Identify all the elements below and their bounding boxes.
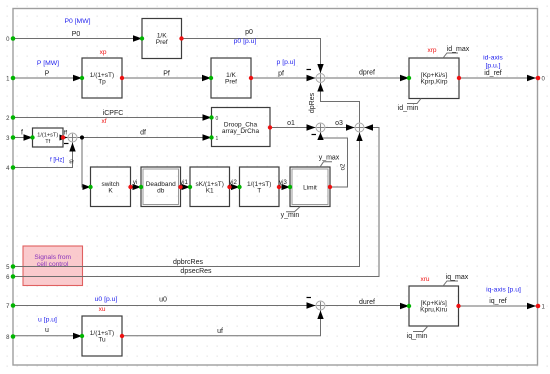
svg-text:yi3: yi3 (279, 180, 287, 186)
svg-text:xrp: xrp (427, 47, 436, 54)
label P0 (72, 31, 81, 38)
output port 1 iq_ref (536, 304, 546, 311)
port 7 u0 (6, 303, 15, 310)
label p [p.u] (277, 59, 296, 66)
svg-text:yi2: yi2 (229, 180, 237, 186)
wire P (port1 to Tp) (13, 75, 82, 81)
label P [MW] (37, 60, 59, 67)
wire o2 (Limit up into J3 bottom) (317, 133, 347, 188)
label iq_ref (489, 298, 507, 305)
label u [p.u.] (38, 316, 57, 323)
block Droop_Cha array_DrCha (209, 108, 272, 147)
wire dpRes (J4 up into J1 bottom) (317, 83, 359, 123)
svg-text:pf: pf (278, 71, 284, 78)
label dpsecRes (180, 268, 212, 275)
label id_min tick (398, 99, 421, 113)
svg-text:iq-axis [p.u]: iq-axis [p.u] (486, 287, 521, 294)
wire p0 (Pref1 to J1 top) (182, 39, 324, 74)
label iq_max tick (443, 274, 469, 286)
label P (45, 71, 50, 78)
svg-text:uf: uf (217, 328, 223, 335)
summing junction J3 (o3) (312, 123, 326, 135)
port 6 dpsecRes (6, 274, 15, 281)
label f0 rotated (70, 159, 76, 163)
wire pf (Pref2 to J1) (251, 75, 316, 81)
port 4 f0 (6, 165, 15, 172)
svg-text:T: T (257, 187, 261, 194)
summing junction J2 (df) (64, 133, 77, 144)
svg-text:P0: P0 (72, 31, 81, 38)
annotation Signals from cell control (23, 246, 83, 286)
wire o3 (J3 to J4) (326, 124, 355, 130)
wire yi (switch to Deadband) (131, 184, 142, 190)
block switch K (88, 167, 132, 207)
wire dpbrcRes (port5 up into J4 bottom) (13, 133, 363, 267)
label pf (278, 71, 284, 78)
block K1 sK/(1+sT) (188, 167, 232, 207)
label df (140, 130, 146, 137)
label xru (420, 276, 429, 283)
svg-text:array_DrCha: array_DrCha (222, 128, 260, 135)
block xrp [Kp+Ki/s] Kprp,Kirp (407, 58, 461, 99)
svg-text:1/(1+sT): 1/(1+sT) (37, 133, 58, 139)
label y_max wire labels yi (133, 180, 137, 186)
wire iCPFC (port2 to Droop pin0) (13, 114, 212, 120)
label iCPFC (103, 110, 124, 117)
svg-text:yi1: yi1 (180, 180, 188, 186)
port 3 f (6, 135, 15, 142)
block Pref2 1/K (209, 58, 253, 98)
label xp (100, 49, 107, 56)
svg-text:ff: ff (64, 131, 68, 137)
label Pf (163, 70, 170, 77)
svg-text:dpbrcRes: dpbrcRes (173, 259, 203, 266)
svg-text:[p.u.]: [p.u.] (485, 63, 500, 70)
label y_max tick (319, 155, 340, 168)
summing junction J1 (dpref) (307, 70, 326, 83)
svg-text:u: u (45, 327, 49, 334)
label P0 [MW] (64, 18, 90, 25)
svg-text:Pref: Pref (156, 39, 168, 46)
svg-text:dpref: dpref (359, 70, 375, 77)
label iq_min tick (407, 326, 428, 340)
svg-text:id_min: id_min (398, 105, 419, 112)
summing junction J5 (duref) (307, 298, 326, 311)
svg-text:db: db (157, 187, 165, 194)
wire uf (Tu up into J5 bottom) (122, 311, 324, 336)
svg-text:o3: o3 (335, 120, 343, 127)
svg-text:P [MW]: P [MW] (37, 60, 59, 67)
wire df branch down to switch (82, 138, 91, 191)
svg-text:Tf: Tf (45, 139, 50, 145)
node df junction dot (80, 135, 84, 139)
label o2 rotated (341, 163, 347, 170)
svg-text:xru: xru (420, 276, 429, 283)
svg-text:u0 [p.u]: u0 [p.u] (95, 296, 118, 303)
svg-text:0: 0 (216, 116, 219, 122)
label iq-axis [p.u] (486, 287, 521, 294)
block Tu 1/(1+sT) (80, 316, 124, 356)
label id_ref (484, 70, 502, 77)
svg-text:dpRes: dpRes (309, 92, 316, 113)
wire dpref (J1 to xrp) (326, 75, 410, 81)
wire f (port3 to Tf) (13, 134, 33, 140)
svg-text:o2: o2 (341, 163, 347, 170)
label id-axis (483, 55, 503, 62)
svg-text:id_max: id_max (447, 46, 470, 53)
label u0 [p.u] (95, 296, 118, 303)
port 8 u (6, 334, 15, 341)
svg-text:Pf: Pf (163, 70, 170, 77)
block Pref1 1/K (140, 19, 184, 59)
label duref (359, 299, 375, 306)
svg-text:K1: K1 (206, 187, 214, 194)
label id_max tick (443, 46, 470, 58)
label p0 (245, 29, 253, 36)
summing junction J4 (dpRes) (355, 123, 364, 132)
wire iq_ref (xru to output port 1) (459, 303, 537, 309)
wire Pf (Tp to Pref2) (122, 75, 211, 81)
label yi1 (180, 180, 188, 186)
wire yi1 (Deadband to K1) (181, 184, 191, 190)
wire df (J2 to Droop pin1) (78, 134, 212, 140)
svg-text:df: df (140, 130, 146, 137)
svg-text:Signals from: Signals from (34, 254, 71, 261)
svg-text:f0: f0 (70, 159, 76, 163)
wire yi2 (K1 to T) (230, 184, 240, 190)
svg-text:K: K (108, 187, 113, 194)
wire P0 (port0 to Pref1) (13, 35, 142, 41)
svg-text:Kpru,Kiru: Kpru,Kiru (420, 307, 447, 314)
svg-text:xf: xf (101, 118, 106, 125)
svg-text:1: 1 (216, 136, 219, 142)
label ff (64, 131, 68, 137)
label [p.u.] id (485, 63, 500, 70)
svg-text:u0: u0 (159, 297, 167, 304)
port 2 iCPFC (6, 115, 15, 122)
wire yi3 (T to Limit) (279, 184, 290, 190)
label dpRes rotated (309, 92, 316, 113)
label xrp (427, 47, 436, 54)
port 1 P (6, 76, 15, 83)
svg-text:dpsecRes: dpsecRes (180, 268, 212, 275)
svg-text:duref: duref (359, 299, 375, 306)
label uf (217, 328, 223, 335)
svg-text:p0: p0 (245, 29, 253, 36)
wire duref (J5 to xru) (326, 303, 410, 309)
svg-text:Limit: Limit (303, 185, 317, 192)
svg-text:p0 [p.u]: p0 [p.u] (234, 38, 257, 45)
svg-text:o1: o1 (287, 120, 295, 127)
label f [Hz] (50, 158, 64, 164)
block Tf 1/(1+sT) (30, 128, 65, 147)
label u (45, 327, 49, 334)
wire u0 (port7 to J5) (13, 302, 316, 308)
svg-text:iq_ref: iq_ref (489, 298, 507, 305)
svg-text:Pref: Pref (225, 79, 237, 86)
wire dpsecRes (port6 into J4 right) (13, 124, 379, 276)
svg-text:Tp: Tp (98, 79, 106, 86)
svg-text:f: f (21, 130, 23, 137)
wire f0 (port4 up into J2 bottom) (13, 143, 76, 168)
label u0 (159, 297, 167, 304)
block T 1/(1+sT) (237, 167, 281, 207)
svg-text:id_ref: id_ref (484, 70, 502, 77)
wire o1 (Droop to J3) (270, 124, 316, 130)
label yi2 (229, 180, 237, 186)
wire ff (Tf to J2) (60, 135, 68, 141)
svg-text:Tu: Tu (98, 337, 106, 344)
svg-text:y_max: y_max (319, 155, 340, 162)
svg-text:iq_min: iq_min (407, 333, 428, 340)
port 5 dpbrcRes (6, 264, 15, 271)
label yi3 (279, 180, 287, 186)
label o3 (335, 120, 343, 127)
block Tp 1/(1+sT) (80, 58, 124, 98)
svg-text:iCPFC: iCPFC (103, 110, 124, 117)
svg-text:P0 [MW]: P0 [MW] (64, 18, 90, 25)
label xu (99, 306, 106, 313)
block Limit (288, 167, 332, 207)
svg-text:f [Hz]: f [Hz] (50, 158, 64, 164)
label y_min tick (281, 207, 300, 219)
svg-text:yi: yi (133, 180, 137, 186)
output port 0 id_ref (536, 76, 546, 83)
port 0 P0 (6, 36, 15, 43)
wire id_ref (xrp to output port 0) (459, 75, 536, 81)
block Deadband db (139, 167, 183, 207)
label p0 [p.u] (234, 38, 257, 45)
label dpbrcRes (173, 259, 203, 266)
label f (21, 130, 23, 137)
label xf (101, 118, 106, 125)
svg-text:P: P (45, 71, 50, 78)
label dpref (359, 70, 375, 77)
svg-text:p [p.u]: p [p.u] (277, 59, 296, 66)
svg-text:y_min: y_min (281, 212, 300, 219)
block xru [Kp+Ki/s] Kpru,Kiru (407, 286, 461, 326)
svg-text:u [p.u]: u [p.u] (38, 316, 57, 323)
svg-text:xu: xu (99, 306, 106, 313)
svg-text:Kprp,Kirp: Kprp,Kirp (420, 79, 447, 86)
svg-text:id-axis: id-axis (483, 55, 503, 62)
svg-text:xp: xp (100, 49, 107, 56)
svg-text:iq_max: iq_max (446, 274, 469, 281)
wire u (port8 to Tu) (13, 333, 82, 339)
label o1 (287, 120, 295, 127)
